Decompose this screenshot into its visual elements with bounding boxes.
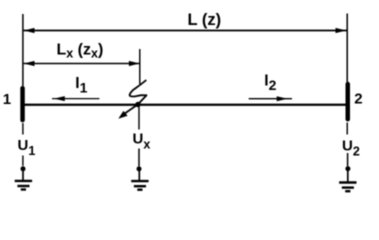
stem above Ux xyxy=(138,106,140,130)
dot U1 xyxy=(21,166,26,171)
stem to ground 2 xyxy=(347,171,349,182)
extension line node 2 xyxy=(346,14,348,83)
ground 2 xyxy=(339,183,356,192)
stem below U2 xyxy=(347,153,349,166)
extension line node 1 xyxy=(22,14,24,86)
stem to ground x xyxy=(138,171,140,181)
stem to ground 1 xyxy=(22,171,24,180)
svg-text:L (z): L (z) xyxy=(188,11,222,29)
dimension line L(z) xyxy=(24,28,347,33)
busbar node 1 xyxy=(20,86,25,122)
svg-text:2: 2 xyxy=(354,91,362,108)
transmission line wire xyxy=(25,104,346,106)
busbar node 2 xyxy=(346,82,351,122)
current arrow I1 xyxy=(52,96,99,101)
fault junction dot xyxy=(135,102,140,107)
extension line fault point xyxy=(139,49,141,84)
stem below Ux xyxy=(138,149,140,167)
ground 1 xyxy=(15,181,32,190)
stem below busbar 2 xyxy=(346,123,348,135)
current arrow I2 xyxy=(249,96,292,101)
dot U2 xyxy=(345,166,350,171)
svg-text:1: 1 xyxy=(3,91,11,108)
fault lightning bolt xyxy=(118,80,147,119)
dot Ux xyxy=(137,166,142,171)
stem below busbar 1 xyxy=(22,123,24,135)
stem below U1 xyxy=(22,156,24,166)
ground x xyxy=(131,181,148,190)
dimension line Lx(zx) xyxy=(24,61,140,66)
